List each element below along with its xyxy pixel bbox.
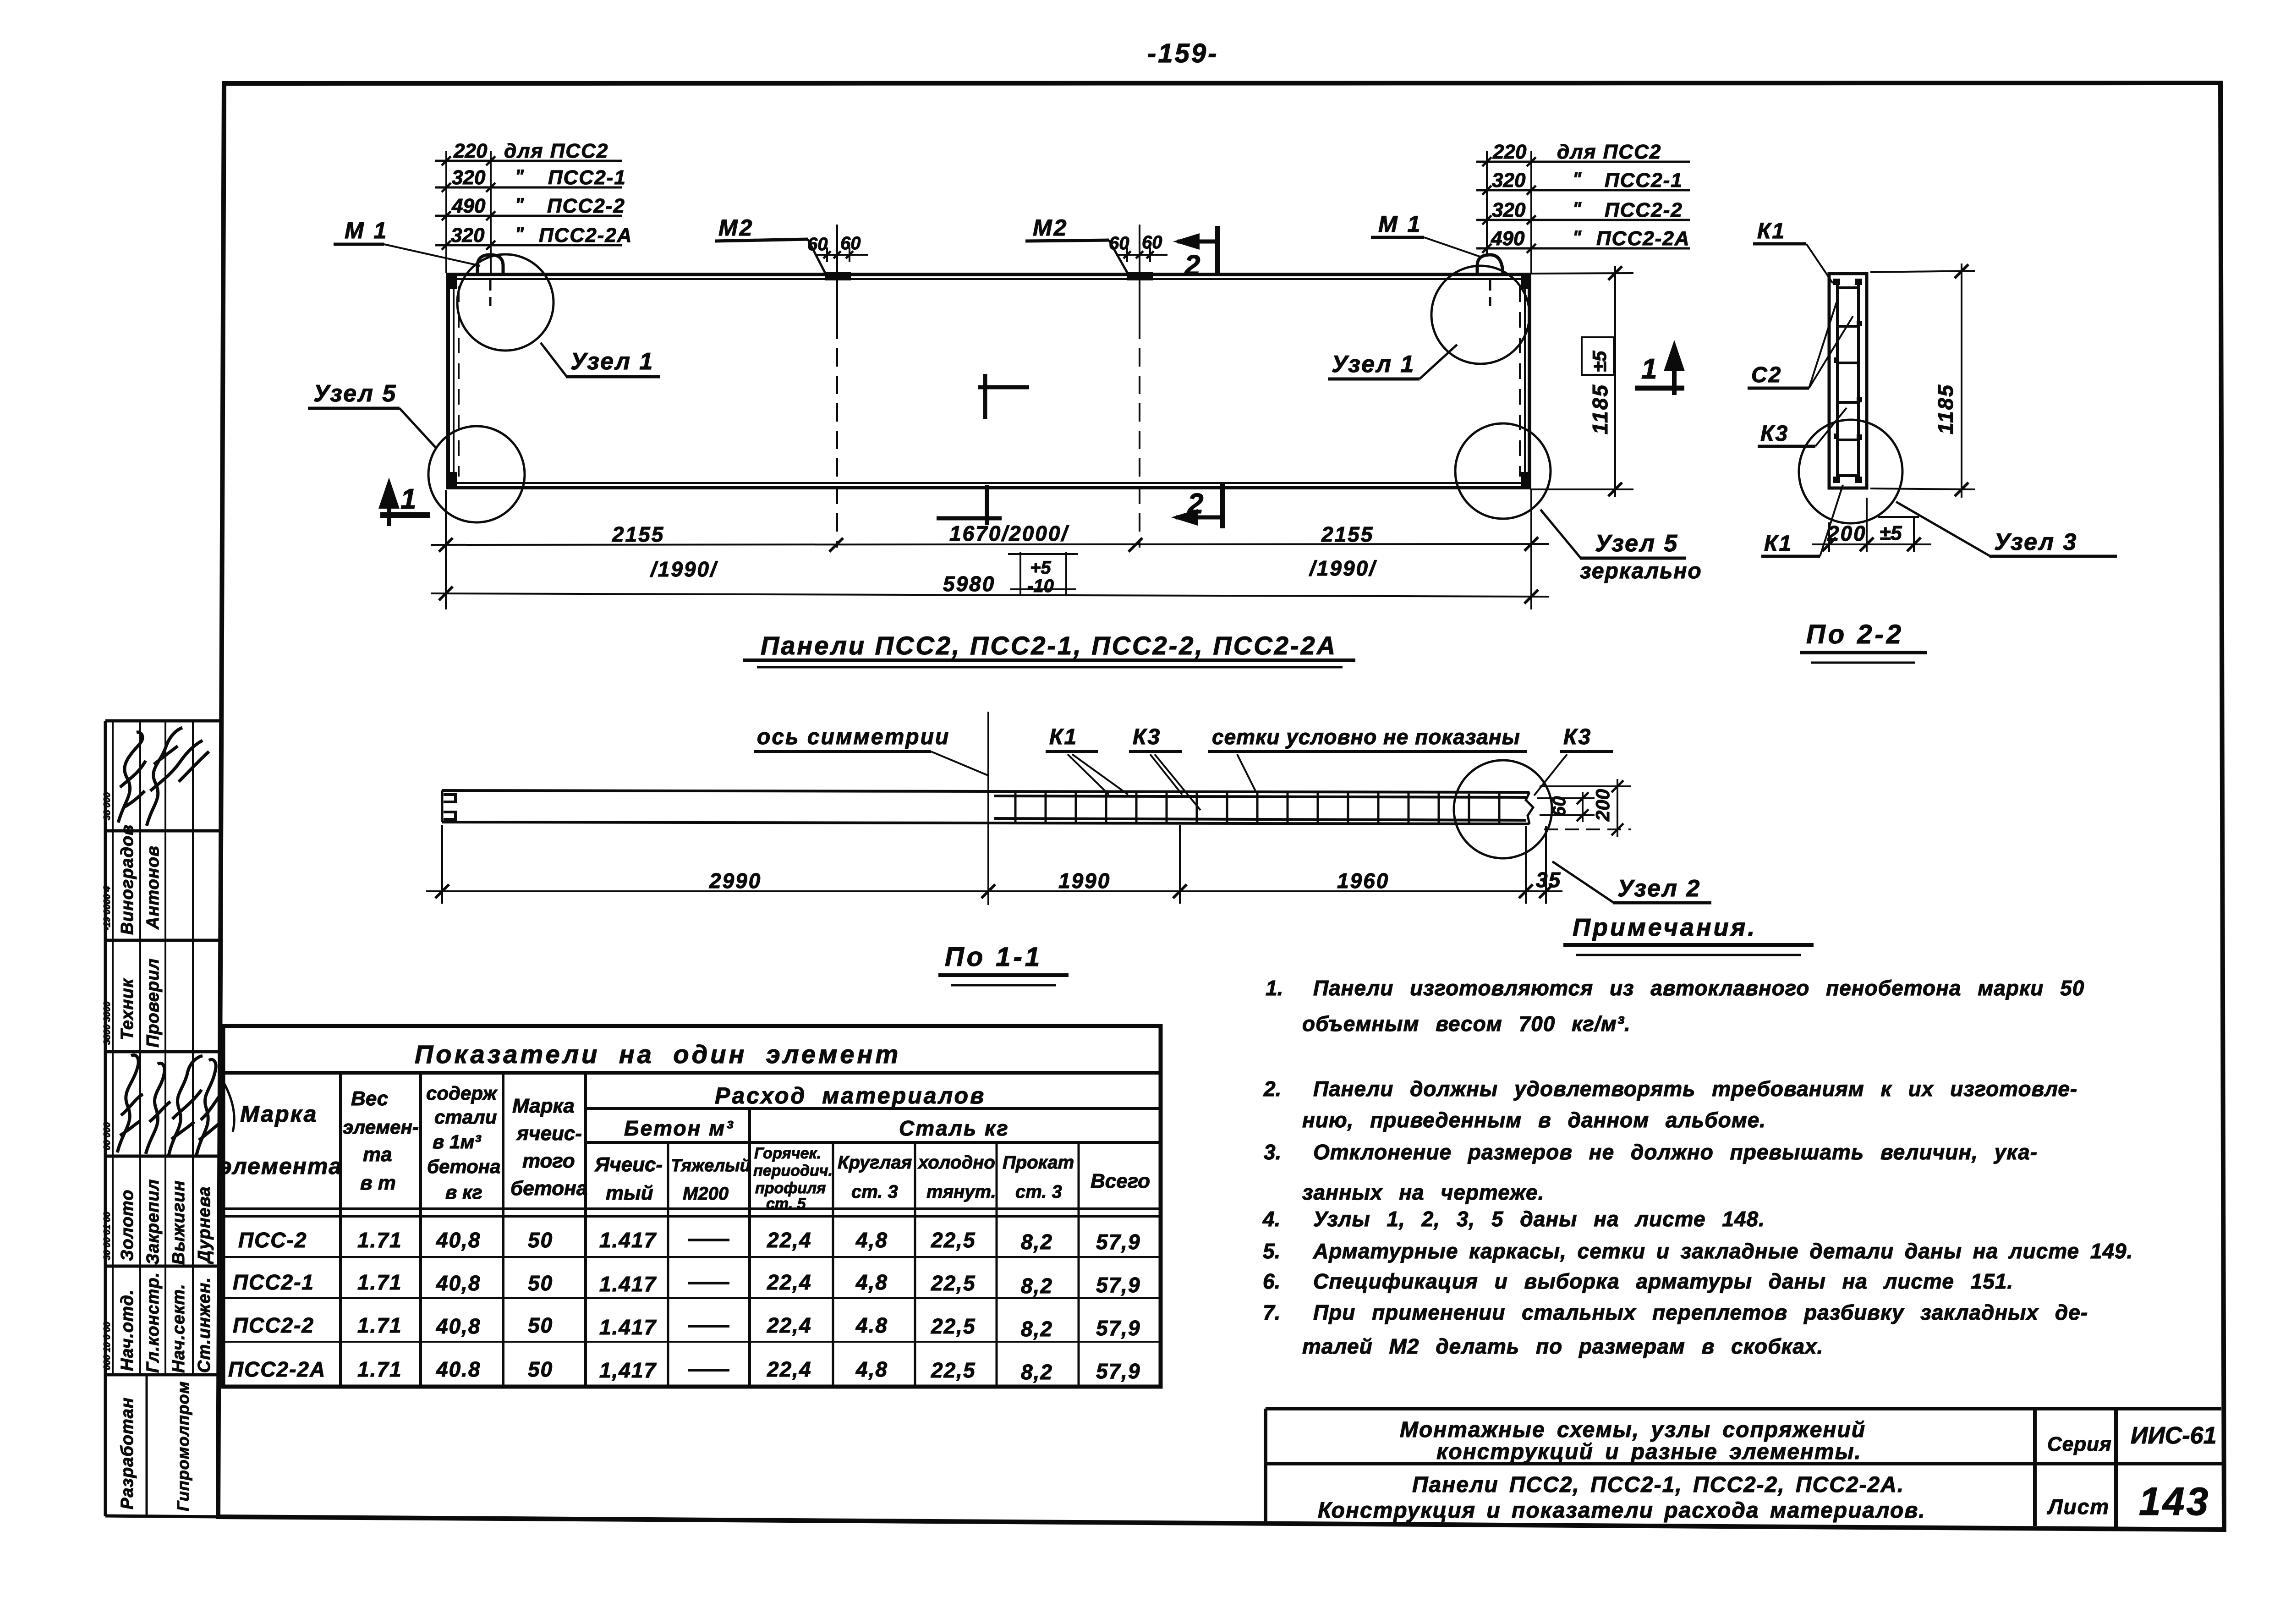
svg-text:22,5: 22,5 [931, 1228, 976, 1252]
M1 arch right centerline [1489, 279, 1491, 306]
svg-text:320: 320 [451, 224, 485, 247]
header bottom double line [223, 1207, 1161, 1210]
svg-text:40,8: 40,8 [436, 1228, 481, 1252]
names Zoloto Zakrepil Vyzhigin Durneva [118, 1179, 214, 1265]
svg-text:/1990/: /1990/ [650, 557, 718, 581]
svg-text:тянут.: тянут. [926, 1182, 996, 1202]
svg-text:Вес: Вес [351, 1087, 388, 1110]
dim 1185 plan right [1530, 273, 1633, 274]
strip top edge [442, 790, 1529, 792]
svg-text:8,2: 8,2 [1021, 1360, 1053, 1384]
names Vinogradov Antonov [118, 824, 163, 935]
table title row line [223, 1071, 1161, 1075]
svg-text:8,2: 8,2 [1021, 1317, 1053, 1341]
svg-text:ПСС2-2: ПСС2-2 [547, 195, 625, 217]
right dim stack ticks [1482, 157, 1536, 253]
corner embed top-right [1521, 273, 1531, 289]
dim 200 below section [1828, 522, 1830, 552]
svg-text:320: 320 [1492, 169, 1526, 192]
strip bottom edge [442, 822, 1529, 824]
svg-text:Отклонение размеров не долж: Отклонение размеров не должно превышать … [1313, 1140, 2038, 1164]
svg-text:1.71: 1.71 [357, 1313, 402, 1337]
svg-text:М2: М2 [1033, 215, 1068, 241]
M2 left centerline [836, 225, 838, 321]
svg-text:Узел 1: Узел 1 [570, 348, 654, 375]
rebar ladder top chord [994, 796, 1526, 797]
tolerance box plus-minus 5 [1582, 337, 1614, 375]
svg-text:ПСС2-2А: ПСС2-2А [1596, 227, 1690, 250]
stamp row dividers [105, 831, 223, 1375]
TABLE [219, 1026, 1161, 1387]
svg-text:1,417: 1,417 [599, 1358, 657, 1382]
svg-text:ПСС2-1: ПСС2-1 [548, 166, 626, 189]
panel outline inner [454, 279, 1525, 483]
svg-text:Нач.секm.: Нач.секm. [169, 1284, 188, 1373]
svg-text:22,4: 22,4 [767, 1313, 812, 1337]
svg-text:Монтажные схемы, узлы сопряж: Монтажные схемы, узлы сопряжений [1400, 1418, 1866, 1442]
svg-text:3800 3000: 3800 3000 [102, 1001, 112, 1045]
svg-text:объемным весом 700 кг/м³.: объемным весом 700 кг/м³. [1302, 1012, 1631, 1036]
svg-text:М 1: М 1 [345, 218, 388, 243]
embed M2 right [1127, 272, 1153, 280]
svg-text:": " [515, 166, 524, 187]
main dim line row2 5980 [431, 593, 1549, 597]
svg-text:Антонов: Антонов [143, 845, 163, 930]
section cut 2 top [1215, 226, 1220, 274]
svg-text:для ПСС2: для ПСС2 [1557, 141, 1661, 163]
svg-text:320: 320 [452, 166, 486, 189]
svg-text:в 1м³: в 1м³ [433, 1131, 481, 1152]
svg-text:ст. 3: ст. 3 [851, 1182, 898, 1202]
svg-text:1990: 1990 [1058, 869, 1111, 893]
svg-text:Круглая: Круглая [838, 1152, 912, 1173]
svg-text:22,4: 22,4 [767, 1228, 812, 1252]
svg-text:По 2-2: По 2-2 [1806, 620, 1904, 649]
names Tekhnik Proveril [118, 958, 163, 1048]
svg-text:К3: К3 [1760, 422, 1789, 446]
svg-text:Лист: Лист [2047, 1495, 2110, 1519]
svg-text:ПСС-2: ПСС-2 [238, 1228, 307, 1252]
svg-text:4.: 4. [1262, 1207, 1280, 1231]
data row 3 [233, 1313, 1141, 1341]
svg-text:57,9: 57,9 [1096, 1230, 1141, 1254]
svg-text:Горячек.: Горячек. [754, 1145, 821, 1162]
svg-text:К1: К1 [1757, 219, 1786, 243]
svg-text:2155: 2155 [1321, 522, 1374, 546]
s11 dim line [426, 890, 1562, 892]
svg-text:2155: 2155 [612, 522, 664, 546]
signature scribbles middle [117, 1055, 143, 1152]
detail circle node2 [1454, 760, 1552, 858]
svg-text:периодич.: периодич. [753, 1162, 833, 1180]
sheet frame border [218, 83, 2224, 1530]
svg-text:Гл.констр.: Гл.констр. [143, 1272, 163, 1373]
svg-text:57,9: 57,9 [1096, 1316, 1141, 1340]
svg-text:8,2: 8,2 [1021, 1274, 1053, 1298]
svg-text:1960: 1960 [1337, 869, 1389, 893]
svg-text:50: 50 [528, 1228, 553, 1252]
rebar cage verticals [1836, 280, 1839, 482]
svg-text:": " [1573, 169, 1582, 189]
svg-text:": " [1573, 227, 1582, 247]
panel outline outer [448, 274, 1529, 488]
svg-text:Виноградов: Виноградов [118, 824, 137, 935]
left dim stack verticals [445, 151, 447, 273]
svg-text:ПСС2-1: ПСС2-1 [233, 1270, 314, 1294]
svg-text:ст. 3: ст. 3 [1015, 1182, 1062, 1202]
svg-text:стали: стали [434, 1106, 497, 1128]
svg-text:1.71: 1.71 [357, 1357, 402, 1381]
svg-text:6.: 6. [1263, 1269, 1280, 1293]
svg-text:По 1-1: По 1-1 [945, 942, 1042, 972]
svg-text:50: 50 [528, 1357, 553, 1381]
svg-text:При применении стальных пер: При применении стальных переплетов разби… [1313, 1300, 2088, 1324]
svg-text:1.71: 1.71 [357, 1228, 402, 1252]
svg-text:зеркально: зеркально [1580, 559, 1702, 583]
svg-text:-10: -10 [1027, 576, 1054, 596]
svg-text:": " [1573, 199, 1582, 219]
signature scribbles top [118, 732, 146, 823]
svg-text:-19 0000 4: -19 0000 4 [102, 886, 112, 930]
svg-text:40,8: 40,8 [436, 1314, 481, 1338]
svg-text:сетки условно не показаны: сетки условно не показаны [1212, 725, 1520, 749]
svg-text:Панели изготовляются из авт: Панели изготовляются из автоклавного пен… [1313, 976, 2084, 1000]
svg-text:в т: в т [360, 1172, 396, 1194]
svg-text:Ст.инжен.: Ст.инжен. [195, 1277, 214, 1373]
svg-text:200: 200 [1592, 789, 1613, 822]
strip right end break [1526, 792, 1533, 824]
svg-text:40,8: 40,8 [436, 1271, 481, 1295]
left dim stack ticks [442, 156, 495, 250]
svg-text:490: 490 [1491, 227, 1525, 250]
svg-text:35: 35 [1536, 868, 1561, 892]
svg-text:50: 50 [528, 1271, 553, 1295]
svg-text:4,8: 4,8 [855, 1228, 888, 1252]
svg-text:ПСС2-1: ПСС2-1 [1605, 169, 1683, 192]
svg-text:2990: 2990 [709, 869, 762, 893]
svg-text:Арматурные каркасы, сетки и: Арматурные каркасы, сетки и закладные де… [1313, 1239, 2133, 1263]
symmetry mark bottom [937, 485, 1002, 525]
data row 2 [233, 1270, 1141, 1298]
svg-text:конструкций и разные элемен: конструкций и разные элементы. [1436, 1440, 1862, 1464]
svg-text:22,5: 22,5 [931, 1271, 976, 1295]
svg-text:220: 220 [453, 140, 488, 162]
svg-text:К1: К1 [1764, 532, 1792, 556]
svg-text:5.: 5. [1263, 1239, 1280, 1263]
svg-text:Примечания.: Примечания. [1573, 914, 1757, 941]
svg-text:60: 60 [1142, 232, 1162, 252]
tolerance plus-minus 5 below [1878, 516, 1919, 518]
svg-text:60: 60 [1109, 233, 1129, 253]
data row 4 [228, 1357, 1141, 1384]
svg-text:Техник: Техник [118, 978, 137, 1040]
svg-text:Проверил: Проверил [143, 958, 163, 1048]
svg-text:Узлы 1, 2, 3, 5 даны на ли: Узлы 1, 2, 3, 5 даны на листе 148. [1313, 1207, 1765, 1231]
svg-text:40.8: 40.8 [436, 1357, 481, 1381]
column lines [339, 1073, 342, 1387]
data row 1 [238, 1228, 1141, 1254]
svg-text:в кг: в кг [445, 1181, 482, 1203]
svg-text:57,9: 57,9 [1096, 1273, 1141, 1297]
svg-text:1.: 1. [1266, 976, 1283, 1000]
svg-text:1185: 1185 [1934, 384, 1957, 434]
stamp bottom column lines [147, 1375, 218, 1517]
rebar ladder bottom chord [994, 818, 1526, 820]
stamp column lines [113, 721, 193, 1375]
detail circle node1 right [1431, 266, 1529, 364]
svg-text:бетона: бетона [510, 1177, 587, 1200]
dim 1185 section right [1870, 271, 1975, 272]
svg-text:220: 220 [1492, 141, 1527, 163]
extension line right [1530, 490, 1532, 609]
svg-text:/1990/: /1990/ [1309, 556, 1377, 580]
svg-text:Тяжелый: Тяжелый [671, 1156, 751, 1175]
svg-text:ст. 5: ст. 5 [766, 1195, 806, 1213]
SECTION22 [1748, 219, 2117, 663]
header row line raskhod [586, 1107, 1161, 1110]
svg-text:Серия: Серия [2047, 1433, 2112, 1455]
svg-text:Дурнева: Дурнева [195, 1186, 214, 1264]
svg-text:того: того [522, 1150, 575, 1172]
svg-text:ПСС2-2А: ПСС2-2А [539, 224, 633, 247]
svg-text:М 1: М 1 [1378, 211, 1422, 237]
svg-text:ось симметрии: ось симметрии [757, 725, 950, 749]
svg-text:": " [515, 224, 524, 244]
svg-text:К3: К3 [1133, 725, 1161, 749]
svg-text:00 000: 00 000 [102, 1122, 112, 1150]
svg-text:3.: 3. [1264, 1140, 1281, 1164]
svg-text:М200: М200 [683, 1184, 729, 1204]
svg-text:22,4: 22,4 [767, 1270, 812, 1294]
svg-text:Нач.отд.: Нач.отд. [118, 1289, 137, 1371]
svg-text:та: та [363, 1143, 392, 1166]
main dim line row1 [431, 544, 1549, 545]
svg-text:5980: 5980 [943, 572, 995, 596]
svg-text:1185: 1185 [1588, 384, 1612, 434]
svg-text:холодно: холодно [917, 1152, 995, 1173]
svg-text:К3: К3 [1563, 725, 1592, 749]
svg-text:60: 60 [1549, 796, 1569, 817]
svg-text:ИИС-61: ИИС-61 [2131, 1422, 2217, 1449]
svg-text:Показатели на один элемент: Показатели на один элемент [415, 1040, 901, 1069]
svg-text:Узел 1: Узел 1 [1332, 351, 1415, 378]
detail circle node5 right [1455, 423, 1551, 519]
titles Nach.otd Gl.konstr Nach.sekt St.inzhen [118, 1272, 214, 1373]
svg-text:57,9: 57,9 [1096, 1359, 1141, 1383]
svg-text:Панели ПСС2, ПСС2-1, ПСС2-2,: Панели ПСС2, ПСС2-1, ПСС2-2, ПСС2-2А [761, 631, 1337, 660]
svg-text:К1: К1 [1049, 725, 1078, 749]
svg-text:элемента: элемента [219, 1153, 342, 1179]
dim 200 right of strip [1540, 785, 1631, 787]
svg-text:профиля: профиля [755, 1180, 826, 1197]
extension line left [445, 490, 447, 609]
svg-text:1.417: 1.417 [599, 1272, 657, 1296]
svg-text:22,5: 22,5 [931, 1358, 976, 1382]
svg-text:талей М2 делать по размера: талей М2 делать по размерам в скобках. [1302, 1334, 1823, 1358]
svg-text:ПСС2-2: ПСС2-2 [233, 1313, 314, 1337]
svg-text:для ПСС2: для ПСС2 [504, 140, 608, 162]
svg-text:Золото: Золото [118, 1190, 137, 1261]
svg-text:Прокат: Прокат [1003, 1152, 1074, 1173]
svg-text:Узел 5: Узел 5 [313, 380, 397, 407]
svg-text:4.8: 4.8 [855, 1313, 888, 1337]
svg-text:8,2: 8,2 [1021, 1230, 1053, 1254]
dim 60 right of strip [1537, 797, 1595, 799]
embed M2 left [825, 272, 851, 280]
svg-text:Панели ПСС2, ПСС2-1, ПСС2-2,: Панели ПСС2, ПСС2-1, ПСС2-2, ПСС2-2А. [1412, 1473, 1904, 1497]
M2 right centerline [1139, 225, 1140, 321]
svg-text:490: 490 [451, 195, 486, 217]
svg-text:30 00 01 00: 30 00 01 00 [102, 1212, 112, 1260]
NOTES [1262, 914, 2133, 1358]
ladder rungs [1015, 791, 1499, 824]
svg-text:38 000: 38 000 [102, 792, 112, 820]
svg-text:Спецификация и выборка арма: Спецификация и выборка арматуры даны на … [1313, 1269, 2013, 1293]
rebar corner sections [1833, 279, 1840, 285]
right dim stack verticals [1486, 151, 1488, 257]
svg-text:1.417: 1.417 [599, 1315, 657, 1339]
svg-text:Узел 5: Узел 5 [1595, 530, 1678, 557]
svg-text:": " [515, 195, 524, 215]
svg-text:143: 143 [2139, 1480, 2210, 1524]
svg-text:нию, приведенным в данном а: нию, приведенным в данном альбоме. [1302, 1108, 1766, 1132]
svg-text:Гипромолпром: Гипромолпром [174, 1381, 192, 1511]
corner embed bottom-right [1521, 472, 1531, 488]
dim 60-60 left [815, 254, 868, 256]
section 2-2 outline [1829, 274, 1867, 488]
panel inner dashed right [1519, 286, 1521, 477]
detail circle node5 left [428, 426, 525, 522]
svg-text:Узел 2: Узел 2 [1617, 875, 1701, 902]
rebar dots [1834, 321, 1862, 440]
svg-text:320: 320 [1492, 199, 1526, 221]
svg-text:7.: 7. [1263, 1300, 1280, 1324]
section cut 1 bottom-left [387, 489, 391, 526]
PLAN_VIEW [308, 140, 1702, 667]
svg-text:Конструкция и показатели ра: Конструкция и показатели расхода материа… [1318, 1498, 1926, 1523]
header col1 [223, 1081, 234, 1132]
svg-text:элемен-: элемен- [343, 1116, 419, 1138]
svg-text:Всего: Всего [1091, 1170, 1150, 1192]
svg-text:2.: 2. [1263, 1077, 1281, 1101]
svg-text:1670/2000/: 1670/2000/ [949, 521, 1069, 545]
detail circle node3 [1799, 420, 1902, 523]
s11 extension lines [441, 825, 443, 904]
svg-text:Марка: Марка [512, 1095, 575, 1117]
dim 60-60 right [1116, 254, 1167, 256]
panel inner dashed left [458, 286, 460, 477]
svg-text:±5: ±5 [1880, 522, 1902, 544]
svg-text:тый: тый [606, 1182, 653, 1204]
svg-text:С2: С2 [1751, 363, 1782, 387]
svg-text:занных на чертеже.: занных на чертеже. [1302, 1180, 1544, 1204]
svg-text:Бетон м³: Бетон м³ [624, 1116, 734, 1140]
svg-text:1: 1 [1641, 353, 1657, 385]
stamp column outer [105, 721, 221, 1517]
svg-text:1: 1 [400, 483, 416, 515]
svg-text:ячеис-: ячеис- [516, 1122, 582, 1145]
svg-text:Закрепил: Закрепил [143, 1179, 163, 1265]
SIDEBAR [102, 721, 223, 1517]
detail circle node1 left [457, 254, 554, 351]
M1 arch left centerline [489, 279, 492, 306]
SECTION11 [426, 712, 1711, 985]
corner embed bottom-left [447, 472, 457, 488]
svg-text:ПСС2-2А: ПСС2-2А [228, 1357, 326, 1381]
svg-text:60: 60 [840, 233, 861, 253]
svg-text:50: 50 [528, 1313, 553, 1337]
header row line beton-stal [586, 1141, 1161, 1144]
left dim stack row lines [435, 160, 622, 162]
svg-text:1.71: 1.71 [357, 1270, 402, 1294]
svg-text:60: 60 [807, 234, 828, 254]
svg-text:4,8: 4,8 [855, 1270, 888, 1294]
symmetry centerline [987, 712, 989, 905]
section cut 1 right [1672, 352, 1677, 395]
embed M1 arch right [1477, 255, 1503, 275]
svg-text:200: 200 [1827, 521, 1867, 545]
svg-text:Ячеис-: Ячеис- [594, 1153, 663, 1176]
svg-text:2: 2 [1187, 488, 1203, 520]
svg-text:содерж: содерж [426, 1082, 498, 1104]
svg-text:бетона: бетона [427, 1156, 501, 1177]
strip left end [441, 790, 444, 822]
svg-text:+5: +5 [1030, 558, 1051, 578]
svg-text:±5: ±5 [1589, 351, 1610, 372]
svg-text:Разработан: Разработан [118, 1397, 137, 1509]
svg-text:Панели должны удовлетворять: Панели должны удовлетворять требованиям … [1313, 1077, 2077, 1101]
svg-text:4,8: 4,8 [855, 1357, 888, 1381]
svg-text:Выжигин: Выжигин [169, 1180, 188, 1265]
TITLEBLOCK [1266, 1409, 2222, 1527]
svg-text:ПСС2-2: ПСС2-2 [1605, 199, 1683, 221]
data row lines [223, 1256, 1161, 1258]
M1 end notches [444, 795, 455, 819]
svg-text:-159-: -159- [1147, 38, 1218, 68]
rebar rungs [1836, 288, 1859, 476]
embed M1 arch left [477, 255, 503, 275]
svg-text:Марка: Марка [240, 1101, 318, 1127]
symmetry mark top [978, 374, 1029, 419]
svg-text:Узел 3: Узел 3 [1994, 529, 2077, 555]
svg-text:22,4: 22,4 [767, 1357, 812, 1381]
svg-text:Сталь кг: Сталь кг [899, 1116, 1009, 1140]
svg-text:2: 2 [1184, 250, 1200, 281]
title block box [1266, 1409, 2222, 1527]
tolerance box +5/-10 [1019, 552, 1021, 595]
svg-text:Расход материалов: Расход материалов [715, 1083, 986, 1108]
section cut 2 bottom [1220, 484, 1225, 528]
right dim stack row lines [1476, 161, 1690, 163]
svg-text:М2: М2 [718, 215, 754, 241]
svg-text:000 10 0 00: 000 10 0 00 [102, 1322, 112, 1370]
corner embed top-left [447, 273, 457, 289]
svg-text:22,5: 22,5 [931, 1314, 976, 1338]
table outer box [223, 1026, 1161, 1387]
micro index text [102, 792, 112, 1370]
svg-text:1.417: 1.417 [599, 1228, 657, 1252]
